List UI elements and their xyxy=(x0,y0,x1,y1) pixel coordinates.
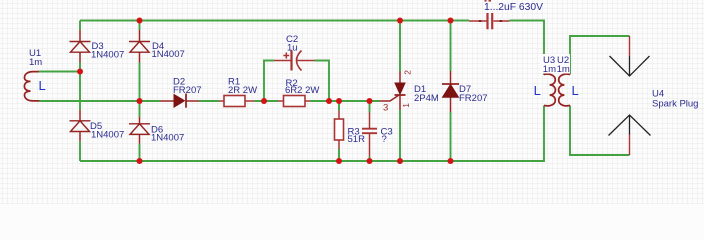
svg-text:6R2 2W: 6R2 2W xyxy=(285,85,319,96)
svg-text:1u: 1u xyxy=(287,43,298,54)
svg-text:L: L xyxy=(572,83,579,98)
svg-text:L: L xyxy=(39,78,46,93)
svg-text:1N4007: 1N4007 xyxy=(151,133,184,144)
svg-text:1N4007: 1N4007 xyxy=(152,49,185,60)
svg-text:1m: 1m xyxy=(557,64,570,75)
svg-text:2R 2W: 2R 2W xyxy=(228,85,257,96)
svg-text:?: ? xyxy=(382,134,387,145)
svg-text:1N4007: 1N4007 xyxy=(91,49,124,60)
svg-text:3: 3 xyxy=(383,103,388,114)
svg-text:1m: 1m xyxy=(29,57,42,68)
svg-text:1m: 1m xyxy=(543,64,556,75)
svg-text:51R: 51R xyxy=(348,134,366,145)
svg-text:FR207: FR207 xyxy=(173,85,202,96)
svg-text:1: 1 xyxy=(401,103,411,108)
svg-text:L: L xyxy=(534,83,541,98)
svg-text:1...2uF 630V: 1...2uF 630V xyxy=(484,2,543,13)
svg-text:2P4M: 2P4M xyxy=(414,93,439,104)
svg-text:Spark Plug: Spark Plug xyxy=(652,99,698,110)
svg-text:FR207: FR207 xyxy=(459,93,488,104)
svg-text:2: 2 xyxy=(402,70,412,75)
svg-text:1N4007: 1N4007 xyxy=(91,130,124,141)
